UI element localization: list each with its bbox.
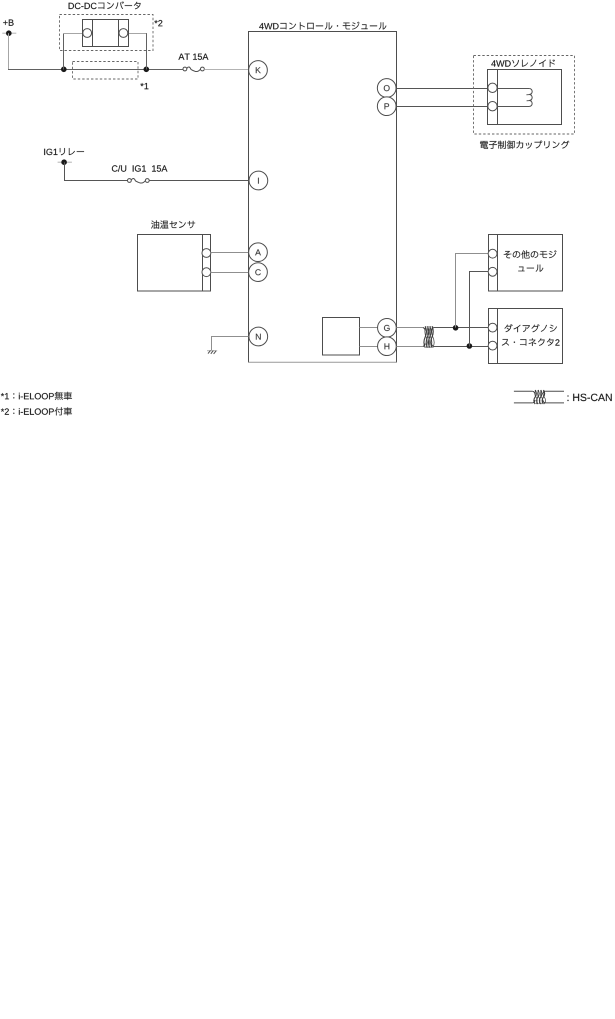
label *1 xyxy=(140,83,148,89)
diagnosis connector box X1 xyxy=(489,309,563,364)
node +B dot xyxy=(6,30,12,36)
pin N xyxy=(249,327,268,346)
ground G1 hatch 2 xyxy=(211,351,214,354)
pin K xyxy=(249,61,268,80)
fuse F2 C/U IG1 15A xyxy=(127,178,149,183)
node IG1 terminal tick xyxy=(58,161,72,163)
oil temp sensor B1 pin 2 xyxy=(202,268,211,277)
4WD solenoid pin 2 xyxy=(488,102,497,111)
label DC-DCコンバータ xyxy=(69,1,141,9)
label 4WDコントロール・モジュール xyxy=(259,22,386,30)
wire fuse F2 to pin I xyxy=(149,180,249,182)
DC-DC converter U1 left strip xyxy=(92,20,94,47)
label *2 xyxy=(154,20,162,26)
wire pin G to twist xyxy=(396,327,422,329)
pin O xyxy=(377,79,396,98)
junction J1 xyxy=(61,67,67,73)
diagnosis connector strip xyxy=(497,309,499,364)
label その他のモジ xyxy=(504,250,557,258)
wire block to pin H xyxy=(360,346,378,348)
wire pin P to solenoid xyxy=(396,106,488,108)
label AT 15A xyxy=(178,54,208,60)
ground G1 hatch 3 xyxy=(214,351,217,354)
wire branch to other modules pin2 xyxy=(470,272,489,347)
junction CAN-L xyxy=(467,343,473,349)
pin P xyxy=(377,97,396,116)
wire DC-DC branch right riser xyxy=(146,33,148,69)
wire CAN-L to diagnosis connector xyxy=(434,346,489,348)
wire solenoid pin1 to coil xyxy=(498,88,530,90)
wire sensor to pin C xyxy=(211,272,249,274)
label ス・コネクタ2 xyxy=(502,338,560,346)
label ュール xyxy=(518,265,543,272)
legend twisted pair symbol xyxy=(533,390,546,404)
4WD solenoid pin 1 xyxy=(488,83,497,92)
wire solenoid pin2 to coil xyxy=(498,106,530,108)
wire pin N to ground xyxy=(212,337,249,351)
option box *1 dashed xyxy=(73,62,139,80)
oil temp sensor B1 body xyxy=(138,235,211,292)
label ダイアグノシ xyxy=(505,324,557,332)
oil temp sensor B1 pin 1 xyxy=(202,249,211,258)
4WD solenoid body xyxy=(488,70,562,125)
DC-DC converter U1 right strip xyxy=(118,20,120,47)
DC-DC converter U1 pin 2 xyxy=(119,29,128,38)
diagnosis connector pin 1 xyxy=(488,323,497,332)
diagnosis connector pin 2 xyxy=(488,341,497,350)
wire DC-DC branch right top xyxy=(128,33,147,35)
other modules pin 2 xyxy=(488,267,497,276)
label IG1リレー xyxy=(44,148,84,155)
fuse F1 AT 15A xyxy=(183,67,204,72)
node IG1 dot xyxy=(61,159,67,165)
pin C xyxy=(249,263,268,282)
legend wire top left xyxy=(514,390,533,392)
4WD control module U2 box xyxy=(249,32,397,363)
other modules pin 1 xyxy=(488,249,497,258)
note *2 i-ELOOP xyxy=(1,407,72,415)
ground G1 bar xyxy=(207,350,217,352)
node +B terminal tick xyxy=(2,32,16,34)
label 電子制御カップリング xyxy=(480,141,569,149)
other modules box U3 xyxy=(489,235,563,292)
twisted pair TP1 xyxy=(423,326,434,347)
oil temp sensor B1 strip xyxy=(202,235,204,292)
pin G xyxy=(378,318,397,337)
wire DC-DC branch left riser xyxy=(63,33,65,69)
legend wire bottom left xyxy=(514,402,533,404)
label HS-CAN xyxy=(568,394,612,401)
other modules strip xyxy=(497,235,499,292)
label C/U IG1 15A xyxy=(112,165,167,172)
wire +B bus xyxy=(8,69,183,71)
option box *2 dashed xyxy=(60,15,154,51)
CAN transceiver block xyxy=(323,318,360,356)
wire fuse F1 to pin K xyxy=(204,69,248,71)
coil L1 xyxy=(526,89,532,107)
junction CAN-H xyxy=(453,325,459,331)
ground G1 hatch 1 xyxy=(208,350,211,353)
DC-DC converter U1 body xyxy=(83,20,129,47)
label 4WDソレノイド xyxy=(491,60,555,68)
label 油温センサ xyxy=(151,220,195,228)
pin A xyxy=(249,243,268,262)
node +B label xyxy=(3,20,13,26)
note *1 i-ELOOP xyxy=(1,392,72,400)
wire sensor to pin A xyxy=(211,252,249,254)
pin H xyxy=(378,337,397,356)
4WD solenoid strip xyxy=(497,70,499,125)
wire block to pin G xyxy=(360,327,378,329)
coupling enclosure dashed xyxy=(474,56,575,135)
wire +B drop xyxy=(8,33,10,69)
wire IG1 to fuse F2 xyxy=(65,162,128,180)
pin I xyxy=(249,171,268,190)
wire branch to other modules pin1 xyxy=(456,254,489,328)
junction J2 xyxy=(144,67,150,73)
wire DC-DC branch left top xyxy=(63,33,83,35)
wire pin O to solenoid xyxy=(396,88,488,90)
DC-DC converter U1 pin 1 xyxy=(83,29,92,38)
wire pin H to twist xyxy=(396,346,422,348)
legend wire bottom right xyxy=(545,402,564,404)
wire CAN-H to diagnosis connector xyxy=(434,327,489,329)
legend wire top right xyxy=(545,390,564,392)
